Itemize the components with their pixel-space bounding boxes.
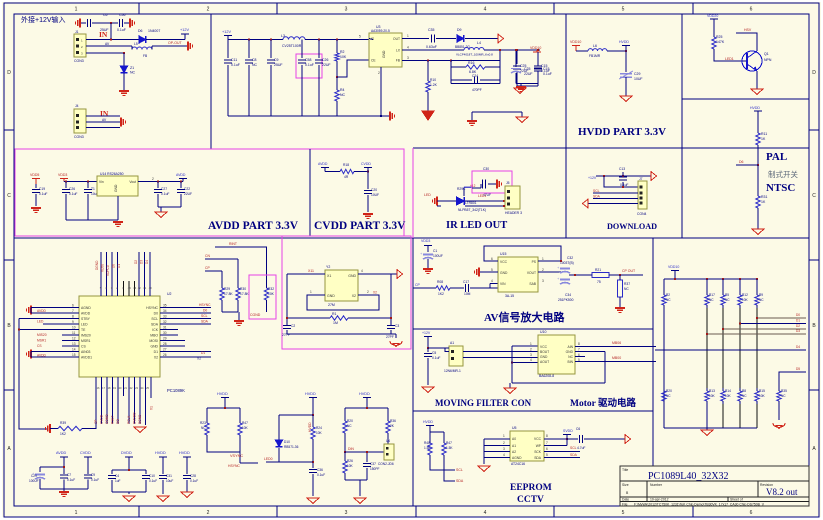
wire CON4 pin3 bbox=[593, 198, 638, 200]
wire R23 down and join bbox=[207, 438, 240, 452]
ground arrow below C28 bbox=[181, 492, 193, 497]
svg-text:OUT: OUT bbox=[393, 37, 400, 41]
wire U10 NC pin bbox=[575, 356, 585, 358]
ground arrow below U5 left bus bbox=[478, 466, 490, 471]
svg-text:0.1uF: 0.1uF bbox=[91, 478, 99, 482]
capacitor C27 0.1uF bbox=[157, 182, 159, 189]
svg-text:C5: C5 bbox=[432, 351, 436, 355]
svg-text:C15: C15 bbox=[543, 67, 549, 71]
wire R47 to SDA net bbox=[444, 458, 455, 481]
ground bar below C19 bbox=[31, 208, 41, 212]
svg-text:9: 9 bbox=[72, 320, 74, 324]
svg-text:STBY: STBY bbox=[81, 317, 91, 321]
svg-text:R48: R48 bbox=[424, 441, 430, 445]
wire RINT down to R32 bbox=[266, 247, 268, 285]
svg-text:10uF: 10uF bbox=[166, 479, 173, 483]
svg-text:Sheet of: Sheet of bbox=[730, 498, 743, 502]
capacitor C25 22UF bbox=[516, 50, 518, 64]
svg-text:4: 4 bbox=[530, 358, 532, 362]
svg-text:1003T(B): 1003T(B) bbox=[560, 261, 574, 265]
svg-text:D6: D6 bbox=[739, 160, 744, 164]
net HSV label red bbox=[744, 28, 752, 32]
capacitor C31 10uF bbox=[162, 457, 164, 474]
right vertical wire osc bbox=[390, 274, 392, 325]
svg-text:J1: J1 bbox=[75, 30, 79, 34]
capacitor C20 10UF bbox=[364, 191, 372, 194]
svg-text:DOWNLOAD: DOWNLOAD bbox=[607, 222, 657, 231]
svg-text:NPN: NPN bbox=[764, 58, 772, 62]
svg-text:3: 3 bbox=[530, 353, 532, 357]
svg-text:T1: T1 bbox=[91, 187, 95, 191]
svg-text:IR LED OUT: IR LED OUT bbox=[446, 220, 507, 231]
svg-text:470PF: 470PF bbox=[472, 88, 482, 92]
svg-text:17.8K: 17.8K bbox=[240, 292, 249, 296]
net LED label red bbox=[424, 193, 431, 197]
svg-text:3: 3 bbox=[503, 447, 505, 451]
svg-text:MIS20: MIS20 bbox=[37, 333, 47, 337]
svg-text:C26: C26 bbox=[322, 58, 328, 62]
svg-text:+12V: +12V bbox=[588, 176, 597, 180]
net labels vertical bottom bundle bbox=[94, 412, 142, 424]
IC U2 PC1089K body bbox=[79, 296, 160, 377]
svg-text:C6: C6 bbox=[576, 427, 580, 431]
ground arrow below C36 bbox=[307, 498, 319, 503]
svg-text:7: 7 bbox=[72, 309, 74, 313]
IC U5 AT24C16 bbox=[510, 431, 544, 461]
svg-text:Size: Size bbox=[622, 483, 629, 487]
svg-text:R11: R11 bbox=[761, 132, 767, 136]
svg-text:VDD5: VDD5 bbox=[30, 173, 39, 177]
resistor R4 NC bbox=[335, 87, 339, 104]
svg-text:C20: C20 bbox=[371, 188, 377, 192]
svg-text:GND: GND bbox=[150, 345, 158, 349]
power HVDD label d10 bbox=[305, 392, 316, 396]
wire VCC to C6 cap and port bbox=[567, 438, 578, 440]
red port at U15 GND pin bbox=[479, 271, 498, 273]
wire D9 to port bbox=[465, 38, 498, 40]
svg-text:AA3059-20-5: AA3059-20-5 bbox=[371, 29, 390, 33]
net HVDD vertical red text bbox=[308, 422, 312, 432]
svg-text:SAB: SAB bbox=[529, 282, 536, 286]
svg-text:C1: C1 bbox=[433, 249, 437, 253]
din bottom bus bbox=[344, 476, 346, 480]
net CP wire bbox=[205, 270, 222, 272]
bottom bus AVDD block bbox=[66, 219, 118, 221]
svg-text:4: 4 bbox=[484, 7, 487, 13]
wire R11 to junction bbox=[757, 148, 759, 165]
svg-text:HEADER 3: HEADER 3 bbox=[505, 211, 522, 215]
svg-text:MSR1: MSR1 bbox=[37, 339, 46, 343]
svg-text:3: 3 bbox=[542, 279, 544, 283]
svg-text:D1: D1 bbox=[796, 319, 800, 323]
label Motor 驱动电路 bbox=[570, 397, 637, 409]
title block v-line size col bbox=[646, 481, 648, 502]
loop vertical x=512 bbox=[511, 346, 513, 383]
svg-text:AGND: AGND bbox=[512, 456, 522, 460]
svg-text:10K: 10K bbox=[725, 394, 732, 398]
resistor R47 1.5K bbox=[442, 440, 446, 458]
svg-text:VLCF4018T_100MR_Kx0.8: VLCF4018T_100MR_Kx0.8 bbox=[456, 53, 493, 57]
svg-text:PC1089K: PC1089K bbox=[167, 388, 185, 393]
power VDD3 label AV bbox=[421, 239, 430, 243]
wire U15 VOUT to C32 bbox=[538, 271, 561, 273]
svg-text:C29: C29 bbox=[634, 72, 640, 76]
svg-text:1N4007: 1N4007 bbox=[148, 29, 160, 33]
FB loop right rail up to LX node bbox=[499, 50, 501, 61]
svg-text:EEPROM: EEPROM bbox=[510, 483, 552, 493]
svg-text:5: 5 bbox=[622, 7, 625, 13]
svg-text:X2: X2 bbox=[373, 291, 377, 295]
net line D3 bbox=[707, 333, 806, 335]
wire DIN right to U4 bbox=[345, 451, 384, 453]
branch wire to D6 net bbox=[736, 164, 758, 166]
svg-text:AVDD: AVDD bbox=[37, 309, 47, 313]
svg-text:0.1uF: 0.1uF bbox=[620, 183, 628, 187]
bottom bus AVDD group bbox=[40, 488, 88, 490]
svg-text:NLPB5T_342(T1K): NLPB5T_342(T1K) bbox=[458, 208, 486, 212]
resistor R5 NC bbox=[722, 279, 724, 292]
svg-text:SCL: SCL bbox=[151, 317, 158, 321]
svg-text:VCC: VCC bbox=[534, 437, 542, 441]
svg-text:D1: D1 bbox=[201, 351, 205, 355]
svg-text:CCTV: CCTV bbox=[517, 495, 544, 505]
wire LED port to diode bbox=[437, 200, 457, 202]
column3 wire down bbox=[722, 308, 724, 388]
net label X1 bottom bbox=[150, 406, 154, 410]
svg-text:75: 75 bbox=[597, 280, 601, 284]
svg-text:NC: NC bbox=[252, 63, 258, 67]
capacitor C29b 100UF bbox=[39, 467, 41, 472]
chassis ground left of C6 bbox=[76, 19, 80, 28]
resistor R2 10K bbox=[336, 40, 338, 51]
resistor R1 1M bbox=[327, 316, 351, 320]
wire leftmost bottom pin to R39 bbox=[85, 424, 96, 429]
svg-text:SDA: SDA bbox=[570, 453, 578, 457]
svg-text:CN: CN bbox=[205, 254, 210, 258]
wire U5 VCC right bbox=[544, 438, 567, 440]
pink box around C30 bbox=[472, 171, 512, 193]
svg-text:C2: C2 bbox=[291, 324, 295, 328]
svg-text:4: 4 bbox=[491, 279, 493, 283]
capacitor C15 0.1uF bbox=[537, 52, 539, 64]
svg-text:R29C: R29C bbox=[457, 187, 466, 191]
label CCTV bbox=[517, 495, 544, 505]
svg-text:IN: IN bbox=[99, 30, 108, 39]
ground below Z1 red bar bbox=[119, 91, 129, 95]
svg-text:0.1uF: 0.1uF bbox=[117, 28, 126, 32]
svg-text:10K: 10K bbox=[316, 431, 323, 435]
svg-text:C7: C7 bbox=[67, 473, 71, 477]
svg-text:0.1uF: 0.1uF bbox=[543, 72, 552, 76]
ground arrow PAL block bbox=[752, 229, 764, 234]
resistor R31 1K bbox=[756, 193, 760, 211]
svg-text:NC: NC bbox=[624, 287, 629, 291]
U3 OUT wire pin1 bbox=[402, 38, 429, 40]
svg-text:C4: C4 bbox=[115, 474, 119, 478]
svg-text:C19: C19 bbox=[39, 187, 45, 191]
svg-text:D3: D3 bbox=[796, 329, 800, 333]
svg-text:10-apr-2012: 10-apr-2012 bbox=[650, 498, 669, 502]
svg-text:6: 6 bbox=[546, 447, 548, 451]
power VDD20 label bbox=[707, 14, 718, 18]
capacitor C19 0.1uF bbox=[35, 184, 37, 188]
U2 left pin wires bbox=[19, 308, 79, 358]
U3 LX wire to L4 bbox=[402, 49, 464, 51]
chassis ground at J4 pin2 bbox=[121, 118, 125, 127]
loop bottom wire bbox=[512, 382, 605, 384]
wire LED0 to junction bbox=[279, 461, 313, 463]
wire R2/R4 junction to CE pin bbox=[337, 60, 369, 77]
svg-text:HSYNC: HSYNC bbox=[228, 464, 240, 468]
capacitor C25 22UF electrolytic bbox=[515, 50, 517, 67]
svg-text:AVDD: AVDD bbox=[81, 312, 91, 316]
title block labels bbox=[622, 468, 773, 507]
ground bar below R37 bbox=[615, 308, 625, 312]
svg-text:27: 27 bbox=[163, 348, 167, 352]
svg-text:7: 7 bbox=[578, 348, 580, 352]
svg-text:CP OUT: CP OUT bbox=[622, 269, 636, 273]
svg-text:D10: D10 bbox=[284, 440, 290, 444]
net SDA label red download bbox=[593, 195, 601, 199]
svg-text:10K: 10K bbox=[709, 394, 716, 398]
svg-text:VDD3: VDD3 bbox=[58, 173, 67, 177]
svg-text:R20: R20 bbox=[666, 389, 672, 393]
svg-text:5: 5 bbox=[359, 35, 361, 39]
svg-text:CVDD: CVDD bbox=[361, 162, 371, 166]
capacitor C35 series bbox=[432, 35, 435, 43]
pink left edge of IR LED block x=413 bbox=[412, 148, 414, 238]
capacitor C24 470PF bbox=[451, 79, 472, 81]
wire J1 pin3 junction bbox=[86, 52, 124, 54]
svg-text:SCL: SCL bbox=[201, 314, 208, 318]
ground bar below C25 bus bbox=[520, 84, 522, 87]
small coil above diode bbox=[464, 187, 472, 188]
Q1 emitter wire to ground bbox=[756, 71, 758, 89]
svg-text:C31: C31 bbox=[166, 474, 172, 478]
svg-text:2: 2 bbox=[503, 441, 505, 445]
svg-text:C37: C37 bbox=[370, 462, 376, 466]
svg-text:PCLK: PCLK bbox=[127, 415, 131, 424]
wire D10 down to LED0 net bbox=[278, 448, 280, 462]
svg-text:IMS20: IMS20 bbox=[81, 334, 91, 338]
svg-text:0.1uF: 0.1uF bbox=[432, 356, 440, 360]
svg-text:C: C bbox=[7, 193, 11, 199]
label 制式开关 bbox=[768, 169, 798, 179]
svg-text:C13: C13 bbox=[619, 167, 625, 171]
svg-text:15: 15 bbox=[72, 353, 76, 357]
svg-text:AT24C16: AT24C16 bbox=[511, 462, 525, 466]
wire junction down to header pin1 bbox=[604, 176, 638, 187]
svg-text:HSV: HSV bbox=[744, 28, 752, 32]
filled ground triangle below R10 bbox=[422, 111, 434, 120]
svg-text:A1: A1 bbox=[512, 444, 516, 448]
earth ground right array bbox=[773, 423, 785, 429]
svg-text:R20: R20 bbox=[347, 419, 353, 423]
svg-text:MOVING FILTER CON: MOVING FILTER CON bbox=[435, 398, 532, 408]
wire J1 pin2 to L5 bbox=[86, 45, 132, 47]
ground arrow below array bus bbox=[706, 428, 708, 430]
gnd bus below C25/C15 bbox=[516, 83, 538, 85]
svg-text:L4: L4 bbox=[477, 41, 481, 45]
svg-text:0.1uF: 0.1uF bbox=[231, 63, 240, 67]
wire U5 SCK right bbox=[544, 451, 580, 453]
title block v-line sheet col bbox=[727, 497, 729, 502]
bottom bus of power block bbox=[228, 115, 389, 117]
wire +12V to A1 bbox=[428, 347, 449, 349]
net LED0 label bbox=[264, 457, 273, 461]
svg-text:NC: NC bbox=[666, 298, 671, 302]
block divider horizontal y=411 bbox=[413, 410, 653, 412]
svg-text:VDD10: VDD10 bbox=[570, 40, 581, 44]
wire R47 down bbox=[239, 438, 241, 463]
junction C6-C56 bbox=[110, 22, 112, 24]
svg-text:CP: CP bbox=[415, 283, 421, 287]
capacitor C4 1uF bbox=[111, 470, 113, 474]
title text PC1089L40_32X32 bbox=[648, 471, 729, 482]
svg-text:26: 26 bbox=[163, 353, 167, 357]
net HSYNC label red right bbox=[199, 303, 211, 307]
svg-text:File: File bbox=[622, 503, 628, 507]
svg-text:1.5K: 1.5K bbox=[424, 446, 431, 450]
svg-text:0.1uF: 0.1uF bbox=[305, 63, 314, 67]
revision text V8.2 out bbox=[766, 487, 798, 497]
svg-text:Y2: Y2 bbox=[326, 265, 330, 269]
svg-text:HVDD: HVDD bbox=[359, 392, 370, 396]
svg-text:3: 3 bbox=[345, 7, 348, 13]
net DIN label bbox=[348, 447, 354, 451]
wire A1 pin2 to U10 GND pin bbox=[463, 357, 538, 359]
power HVDD label PAL block bbox=[750, 106, 760, 110]
capacitor C26 22UF bbox=[318, 40, 320, 59]
svg-text:C6: C6 bbox=[103, 13, 108, 17]
ground arrow below Q1 bbox=[751, 89, 763, 94]
title block v-line revision col bbox=[757, 481, 759, 497]
svg-text:4: 4 bbox=[407, 46, 409, 50]
svg-text:1: 1 bbox=[407, 34, 409, 38]
power HVDD label vsync bbox=[217, 392, 228, 396]
svg-text:1: 1 bbox=[503, 434, 505, 438]
wire L5 to output port bbox=[152, 45, 188, 47]
net SCL label right eeprom bbox=[570, 446, 577, 450]
svg-text:HSYNC: HSYNC bbox=[146, 306, 158, 310]
svg-text:7: 7 bbox=[546, 441, 548, 445]
net SDA label bbox=[201, 320, 209, 324]
svg-text:R17: R17 bbox=[709, 293, 715, 297]
ground arrow AVDD caps bbox=[155, 212, 167, 217]
svg-text:C58: C58 bbox=[305, 58, 311, 62]
wire +12V down moving bbox=[427, 337, 429, 349]
wire GND top pin right bbox=[358, 273, 391, 275]
svg-text:2: 2 bbox=[542, 268, 544, 272]
svg-text:0.1uF: 0.1uF bbox=[317, 473, 325, 477]
label CVDD PART 3.3V bbox=[314, 220, 406, 232]
svg-text:C9: C9 bbox=[274, 58, 279, 62]
svg-text:D4: D4 bbox=[796, 345, 800, 349]
svg-text:NC: NC bbox=[340, 93, 346, 97]
vsync top bus bbox=[224, 398, 226, 409]
svg-text:3A-15: 3A-15 bbox=[505, 294, 514, 298]
svg-text:CON2-JD6: CON2-JD6 bbox=[378, 462, 394, 466]
resistor R32 10K bbox=[264, 285, 268, 303]
svg-text:R5: R5 bbox=[725, 293, 729, 297]
wire U15 PS pin right bbox=[538, 260, 561, 262]
resistor R25 147K bbox=[712, 34, 716, 52]
svg-text:SVDD: SVDD bbox=[563, 429, 573, 433]
net CGND label bbox=[250, 313, 261, 317]
U2 bottom pin wires bundle bbox=[96, 377, 151, 424]
svg-text:X2: X2 bbox=[154, 356, 158, 360]
svg-text:27PF: 27PF bbox=[386, 335, 394, 339]
svg-text:5: 5 bbox=[491, 268, 493, 272]
AVDD power label bbox=[176, 173, 186, 177]
capacitor T1 10uF bbox=[87, 182, 89, 189]
wire C17 to U15 bbox=[470, 287, 498, 289]
svg-text:10K: 10K bbox=[742, 298, 749, 302]
ground arrow below C5 bbox=[422, 387, 434, 392]
FB loop bottom wire bbox=[451, 83, 500, 85]
U2 top pin wires bundle left bbox=[101, 252, 118, 296]
wire CP down to R29 bbox=[221, 271, 223, 285]
pink highlight box around C58 bbox=[296, 54, 322, 78]
block divider vertical x=413 bbox=[412, 238, 414, 506]
svg-text:22UF: 22UF bbox=[184, 192, 192, 196]
resistor R21 75 box style bbox=[592, 273, 609, 278]
power SVDD label eeprom bbox=[563, 429, 573, 433]
wire C34 node to R21 bbox=[569, 274, 592, 276]
svg-text:DVDD: DVDD bbox=[121, 451, 132, 455]
wire to osc ground bbox=[395, 334, 397, 338]
svg-text:HVDD: HVDD bbox=[750, 106, 760, 110]
wire U5 WP pin bbox=[544, 445, 567, 447]
label PAL bbox=[766, 151, 787, 163]
svg-text:D: D bbox=[812, 70, 816, 76]
svg-text:C11: C11 bbox=[231, 58, 237, 62]
IC U10 BA6208 bbox=[538, 335, 575, 374]
svg-text:31: 31 bbox=[163, 326, 167, 330]
svg-text:MB06: MB06 bbox=[612, 341, 621, 345]
label IR LED OUT bbox=[446, 220, 507, 231]
wire Z1 to ground bbox=[123, 73, 125, 91]
power HVDD label bottom1 bbox=[155, 451, 166, 455]
svg-text:10UF: 10UF bbox=[634, 77, 643, 81]
capacitor C58 0.1uF bbox=[301, 40, 303, 59]
svg-text:RINT: RINT bbox=[229, 242, 237, 246]
svg-text:C29: C29 bbox=[31, 474, 37, 478]
AVDD group bus bbox=[63, 457, 65, 474]
wire down to triangle ground tie bbox=[521, 112, 523, 117]
net X11 label bbox=[308, 269, 314, 273]
svg-text:1K2: 1K2 bbox=[60, 432, 66, 436]
svg-text:LED: LED bbox=[424, 193, 431, 197]
gnd bus below C25/C15 bbox=[517, 85, 538, 87]
ground bar below U14 bbox=[113, 222, 123, 226]
FB loop left rail bbox=[450, 61, 452, 84]
svg-text:Q1: Q1 bbox=[764, 52, 769, 56]
ground bar below AVDD group bbox=[63, 489, 65, 492]
gnd bus below R29/R30 bbox=[221, 303, 223, 312]
svg-text:X2: X2 bbox=[197, 357, 201, 361]
loop right vertical bbox=[604, 352, 606, 384]
svg-text:VDD10: VDD10 bbox=[668, 265, 679, 269]
inductor L3 CV25T100R bbox=[283, 37, 305, 40]
CVDD power label bbox=[361, 162, 371, 166]
svg-text:Vin: Vin bbox=[99, 180, 104, 184]
svg-text:Title: Title bbox=[622, 468, 628, 472]
svg-text:U14 RS26A250: U14 RS26A250 bbox=[100, 172, 124, 176]
power HVDD label blue bbox=[619, 40, 629, 44]
svg-text:R26: R26 bbox=[347, 459, 353, 463]
svg-text:VDD3: VDD3 bbox=[421, 239, 430, 243]
